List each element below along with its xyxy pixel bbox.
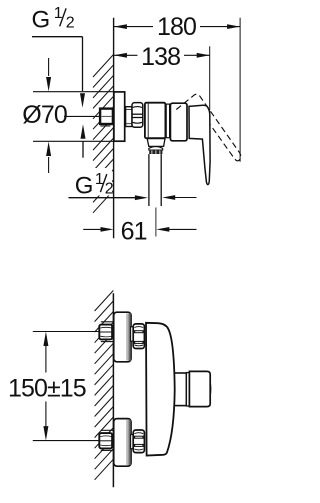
svg-text:G: G <box>32 7 51 34</box>
svg-text:61: 61 <box>121 217 147 245</box>
lower union nut (bottom view) <box>133 430 144 453</box>
handle cap (bottom view) <box>189 371 210 406</box>
S-union neck (top view) <box>126 107 132 127</box>
cartridge ring (bottom view) <box>186 373 189 406</box>
diameter 70 dimension <box>22 58 113 173</box>
mixer body (bottom view) <box>146 323 175 456</box>
svg-text:2: 2 <box>66 15 75 32</box>
svg-text:138: 138 <box>141 43 180 71</box>
upper wall hex nut <box>99 322 113 342</box>
wall hatching (bottom view) <box>95 291 114 480</box>
lower escutcheon (bottom view) <box>114 419 131 467</box>
mixer body (top view) <box>145 103 166 139</box>
lower wall hex nut <box>99 430 113 450</box>
upper union neck <box>131 327 134 341</box>
cartridge neck (bottom view) <box>169 373 187 406</box>
G 1/2 label (wall connection, top) <box>32 5 86 108</box>
wall hatching (top view) <box>93 54 114 212</box>
dimension 138 <box>114 54 210 56</box>
svg-text:G: G <box>75 172 94 199</box>
extension line at 138 <box>209 46 211 110</box>
svg-text:Ø70: Ø70 <box>22 101 67 129</box>
svg-text:180: 180 <box>157 13 196 41</box>
wall face line (bottom view) <box>112 293 114 487</box>
escutcheon flange (top view) <box>114 92 125 141</box>
svg-text:2: 2 <box>105 181 114 198</box>
upper union nut (bottom view) <box>133 324 144 349</box>
lower union neck <box>131 435 134 449</box>
union nut (top view) <box>132 103 143 128</box>
dimension 180 <box>114 26 240 28</box>
white mask under lower G 1/2 label <box>92 168 113 196</box>
G 1/2 label (shower outlet, lower) <box>69 124 197 200</box>
upper escutcheon (bottom view) <box>114 312 131 362</box>
lever handle open position (dashed, top view) <box>176 94 241 161</box>
dimension 61 <box>83 217 196 245</box>
lever handle closed (solid, top view) <box>189 105 210 184</box>
wall face line (top view) <box>113 18 115 239</box>
wall union hex socket (top view) <box>100 109 113 126</box>
extension line at 180 (handle tip) <box>239 18 241 162</box>
cartridge ring (top view) <box>166 104 169 138</box>
outlet pipe (top view) <box>149 154 161 206</box>
svg-text:150±15: 150±15 <box>8 374 86 402</box>
outlet centre extension line <box>155 208 157 237</box>
handle cap (top view) <box>170 103 187 141</box>
shower outlet block and thread (top view) <box>147 139 165 154</box>
dimension 150±15 <box>8 332 100 441</box>
